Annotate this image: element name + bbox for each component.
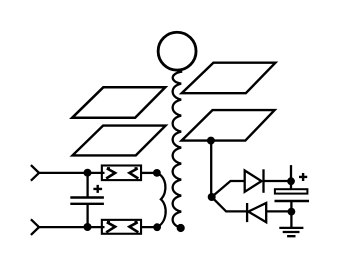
wire: node B to surge arrester F2 — [88, 226, 105, 228]
ground symbol — [279, 228, 303, 236]
capacitor C1 bottom plate — [70, 203, 104, 205]
wire: node A to surge arrester F1 — [88, 172, 105, 174]
node: link coil bottom dot — [153, 223, 161, 231]
wire: diode D2 anode to node F — [267, 210, 291, 212]
wire: capacitor C2 to node F — [290, 202, 292, 212]
node: link coil top dot — [153, 169, 161, 177]
wire: J1 to node A — [39, 172, 88, 174]
capacitor C1 top plate — [70, 196, 104, 198]
antenna panel A1 (upper left parallelogram) — [72, 87, 165, 118]
wire: node A down to capacitor C1 — [86, 173, 88, 197]
node F junction dot — [288, 208, 296, 216]
wire: J2 to node B — [39, 226, 88, 228]
antenna panel A2 (lower left parallelogram) — [73, 126, 166, 156]
node B junction dot — [84, 223, 92, 231]
antenna panel A4 (lower right parallelogram) — [182, 110, 275, 141]
wire: node F down to ground — [290, 212, 292, 228]
wire: node D up-right to diode D1 anode — [212, 181, 245, 197]
node A junction dot — [84, 169, 92, 177]
diode D2 (pointing left) triangle — [248, 203, 266, 222]
diode D2 cathode bar — [246, 203, 248, 222]
wire: node C down to node D — [210, 141, 212, 197]
wire: node E down to capacitor C2 — [290, 181, 292, 189]
input terminal J1 (top left chevron) — [31, 165, 39, 181]
capacitor C2 bottom plate — [275, 200, 310, 203]
capacitor C1 plus sign — [93, 185, 102, 193]
node: coil L1 bottom terminal dot — [177, 224, 185, 232]
node D junction dot — [208, 193, 216, 201]
coupling link winding L2 (two-turn coil) — [157, 173, 166, 227]
node E junction dot (+ output) — [287, 177, 295, 185]
surge arrester F1 right arrow — [129, 168, 138, 178]
wire: capacitor C1 down to node B — [86, 205, 88, 227]
surge arrester F1 left arrow — [106, 168, 115, 178]
antenna panel A3 (upper right parallelogram) — [182, 63, 276, 93]
wire: surge arrester F1 to link coil top node — [141, 172, 157, 174]
diode D1 (pointing right) triangle — [245, 171, 262, 192]
input terminal J2 (bottom left chevron) — [31, 219, 39, 235]
surge arrester F2 right arrow — [129, 222, 138, 232]
wire: node E output stub up — [290, 165, 292, 181]
diode D1 cathode bar — [262, 169, 264, 193]
surge arrester F2 box (gas discharge tube, bottom) — [102, 220, 141, 234]
wire: node D down-right to diode D2 cathode — [212, 197, 247, 211]
surge arrester F1 box (gas discharge tube, top) — [102, 166, 141, 181]
node C: tap dot on antenna panel A4 bottom edge — [207, 137, 215, 145]
loading coil L1 — [173, 70, 182, 228]
plus sign label at output — [299, 173, 307, 181]
surge arrester F2 left arrow — [106, 222, 115, 232]
wire: diode D1 cathode to node E — [264, 180, 292, 182]
capacitive top-hat ball E1 — [158, 32, 196, 70]
capacitor C2 top plate (polarized, hollow rectangle) — [275, 189, 308, 193]
wire: surge arrester F2 to link coil bottom node — [141, 226, 157, 228]
